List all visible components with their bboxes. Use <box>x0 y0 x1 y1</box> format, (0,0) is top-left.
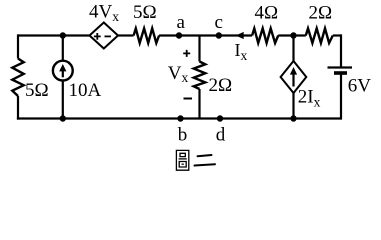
wire top right corner <box>333 34 341 36</box>
minus sign of Vx <box>184 98 193 100</box>
wire top right of 4ohm <box>278 34 306 36</box>
wire left branch vertical <box>17 34 19 119</box>
plus sign inside source <box>94 33 101 40</box>
junction dot top of 2Ix branch <box>290 32 296 38</box>
svg-text:4Vx: 4Vx <box>89 2 119 24</box>
svg-text:Vx: Vx <box>168 63 189 85</box>
junction dot 10A bottom <box>60 115 66 121</box>
wire right branch to battery <box>340 34 342 119</box>
caption glyph tu (figure) <box>176 150 188 170</box>
dependent source 4Vx diamond <box>90 23 119 49</box>
svg-text:10A: 10A <box>69 80 102 101</box>
svg-text:a: a <box>177 12 186 33</box>
node b dot <box>177 115 183 121</box>
svg-text:5Ω: 5Ω <box>133 2 157 23</box>
arrow inside 2Ix source <box>290 67 297 87</box>
current source 10A circle <box>53 61 73 81</box>
resistor 5ohm left vertical <box>12 59 23 97</box>
caption glyph er (two) <box>195 155 216 166</box>
svg-text:Ix: Ix <box>235 40 248 63</box>
svg-text:c: c <box>215 12 223 33</box>
current source 10A arrow <box>59 64 66 77</box>
svg-text:6V: 6V <box>348 76 372 97</box>
svg-text:b: b <box>178 125 188 146</box>
dependent current source 2Ix diamond <box>281 61 307 93</box>
svg-text:2Ω: 2Ω <box>209 75 233 96</box>
wire top from source to 5ohm resistor <box>118 34 134 36</box>
wire top middle a-c segment <box>159 34 252 36</box>
svg-text:d: d <box>216 125 226 146</box>
wire middle 2ohm branch <box>198 36 200 119</box>
resistor 4ohm <box>252 28 278 43</box>
resistor 2ohm right <box>306 28 333 43</box>
wire bottom rail <box>17 117 341 119</box>
wire top-left segment <box>18 34 90 36</box>
junction dot 2Ix bottom <box>290 115 296 121</box>
node d dot <box>217 115 223 121</box>
plus sign of Vx <box>183 50 190 57</box>
node c dot <box>216 32 222 38</box>
node a dot <box>176 32 182 38</box>
current arrow Ix on wire <box>236 32 244 39</box>
svg-text:5Ω: 5Ω <box>25 80 49 101</box>
junction dot 10A top <box>60 32 66 38</box>
svg-text:2Ix: 2Ix <box>298 87 321 110</box>
minus sign inside source <box>105 35 111 37</box>
battery 6V plates <box>328 68 353 74</box>
svg-text:2Ω: 2Ω <box>309 3 333 24</box>
svg-text:4Ω: 4Ω <box>255 3 279 24</box>
resistor 2ohm middle vertical <box>194 62 206 90</box>
resistor 5ohm horizontal <box>134 28 160 43</box>
wire 10A branch <box>62 36 64 119</box>
wire 2Ix branch <box>292 36 294 119</box>
